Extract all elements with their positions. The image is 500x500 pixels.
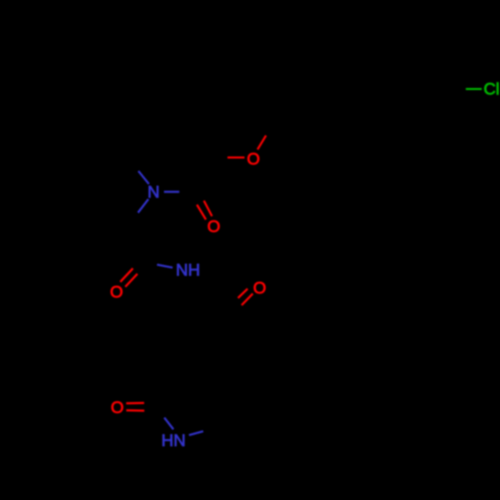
bond C=O lactam double half (red, lower line) — [126, 409, 144, 412]
bond N-C(=O) half right (blue) — [164, 191, 179, 193]
bond C-NH half (blue) — [157, 265, 173, 268]
bond C=O lactam double half (red, upper line) — [126, 402, 144, 404]
bond N-CH2 lactam half (blue) — [189, 431, 203, 435]
bond N-C half down-left (blue) — [138, 199, 148, 213]
svg-text:N: N — [148, 183, 160, 202]
svg-text:HN: HN — [161, 431, 185, 450]
svg-text:NH: NH — [176, 261, 200, 280]
bond C=O amide double half (red, lower line) — [125, 274, 137, 287]
bond C=O acyl double half (red, inner line) — [204, 201, 212, 217]
svg-text:O: O — [111, 398, 124, 417]
bond C-N lactam half (blue) — [164, 418, 173, 430]
svg-text:O: O — [110, 282, 123, 301]
svg-text:O: O — [247, 149, 260, 168]
bond C=O ketone double half (red, lower line) — [242, 294, 253, 306]
bond O-CH2 half up-right (red) — [258, 136, 267, 150]
svg-text:O: O — [253, 278, 266, 297]
svg-text:O: O — [207, 217, 220, 236]
bond N-C half up-left (blue) — [138, 171, 149, 184]
bond C=O ketone double half (red, upper line) — [238, 289, 248, 298]
bond C=O amide double half (red, upper line) — [120, 268, 133, 282]
bond C-Cl half (green) — [466, 88, 482, 90]
bond CH2-O half left (red) — [228, 156, 245, 158]
svg-text:Cl: Cl — [484, 80, 500, 99]
bond C=O acyl double half (red, outer line) — [197, 205, 206, 220]
